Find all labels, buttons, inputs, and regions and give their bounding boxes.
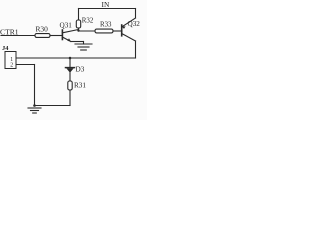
wire bbox=[78, 28, 80, 31]
connector J4 box bbox=[5, 52, 16, 69]
wire bbox=[1, 35, 35, 37]
resistor R31 bbox=[68, 81, 72, 90]
svg-text:CTR1: CTR1 bbox=[0, 27, 19, 36]
resistor R30 bbox=[35, 34, 50, 38]
ground bbox=[28, 108, 41, 113]
node junction bbox=[77, 29, 79, 31]
svg-text:Q32: Q32 bbox=[128, 20, 141, 28]
svg-text:2: 2 bbox=[10, 63, 13, 69]
node junction bbox=[33, 104, 36, 107]
wire bbox=[135, 9, 137, 19]
wire bbox=[83, 42, 85, 45]
wire bbox=[135, 41, 137, 58]
svg-text:J4: J4 bbox=[2, 45, 9, 52]
wire bbox=[71, 41, 84, 43]
wire bbox=[35, 105, 71, 107]
svg-text:Q31: Q31 bbox=[60, 22, 73, 30]
node junction bbox=[69, 57, 72, 60]
wire bbox=[69, 58, 71, 68]
wire pin2 bbox=[15, 64, 35, 66]
wire bbox=[79, 30, 96, 32]
transistor Q1 body bbox=[62, 30, 78, 42]
diode D3 bbox=[66, 68, 75, 73]
wire bbox=[113, 30, 122, 32]
wire bbox=[34, 65, 36, 106]
transistor Q2 body bbox=[122, 18, 136, 41]
wire bbox=[69, 90, 71, 106]
wire bottom rail bbox=[15, 57, 136, 59]
svg-text:R31: R31 bbox=[74, 82, 86, 90]
svg-text:R33: R33 bbox=[100, 21, 112, 28]
wire bbox=[50, 35, 62, 37]
node CTR1 bbox=[0, 0, 1, 1]
svg-text:D3: D3 bbox=[76, 65, 85, 73]
svg-text:R32: R32 bbox=[82, 17, 94, 24]
svg-text:R30: R30 bbox=[36, 24, 49, 33]
wire IN rail bbox=[79, 8, 136, 10]
svg-text:IN: IN bbox=[102, 0, 110, 9]
ground bbox=[75, 44, 92, 50]
resistor R33 bbox=[95, 29, 113, 33]
resistor R32 bbox=[76, 20, 80, 28]
wire bbox=[78, 9, 80, 21]
wire bbox=[69, 73, 71, 81]
